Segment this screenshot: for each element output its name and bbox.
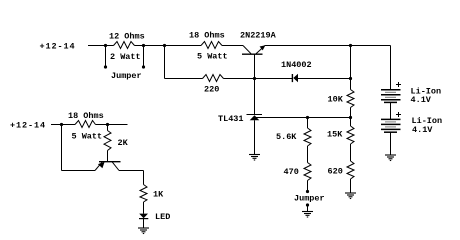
svg-text:+12-14: +12-14 xyxy=(10,121,46,131)
svg-text:15K: 15K xyxy=(327,130,343,140)
resistor R8 5.6K zigzag xyxy=(304,128,311,146)
wire 10K column top xyxy=(350,46,352,90)
wire 2K top lead xyxy=(107,125,109,131)
svg-text:470: 470 xyxy=(284,167,299,177)
wire diode to 10K column xyxy=(298,78,351,80)
transistor Q2 emitter diagonal xyxy=(95,162,102,170)
resistor R2 18 Ohms zigzag xyxy=(201,42,222,49)
resistor R5 10K zigzag xyxy=(347,90,354,108)
wire Q2 collector row xyxy=(119,170,144,172)
transistor Q2 emitter arrowhead xyxy=(98,162,105,168)
svg-text:18 Ohms: 18 Ohms xyxy=(189,31,225,41)
battery BT1 plate long 3 xyxy=(381,99,401,101)
wire 470 to jumper post xyxy=(307,181,309,192)
junction dot top rail x164 xyxy=(163,44,166,47)
resistor R11 1K zigzag xyxy=(140,185,147,203)
battery BT1 short plate 2 xyxy=(385,96,396,98)
jumper post end dot left xyxy=(104,65,107,68)
svg-text:4.1V: 4.1V xyxy=(412,125,433,135)
battery BT2 short plate 1 xyxy=(385,121,396,123)
wire battery lead top xyxy=(390,46,392,90)
svg-text:Jumper: Jumper xyxy=(294,194,325,204)
LED cathode bar xyxy=(139,218,148,220)
junction dot top rail x350 xyxy=(349,44,352,47)
svg-text:2 Watt: 2 Watt xyxy=(110,52,141,62)
svg-text:Jumper: Jumper xyxy=(111,71,142,81)
ground under jumper2 xyxy=(302,211,313,213)
svg-text:2K: 2K xyxy=(118,138,129,148)
wire bottom rail to stub end xyxy=(96,124,128,126)
jumper2 post dot top xyxy=(306,190,309,193)
junction dot bottom rail x107 xyxy=(106,123,109,126)
wire top rail mid xyxy=(135,45,202,47)
wire collector down to 1K xyxy=(143,171,145,185)
wire 220 row left xyxy=(165,78,203,80)
TL431 U1 triangle xyxy=(250,115,260,120)
junction dot bottom rail x61 xyxy=(60,123,63,126)
resistor R4 18 Ohms bottom zigzag xyxy=(75,121,96,128)
jumper post stub left xyxy=(105,46,107,68)
wire 620 to ground xyxy=(350,179,352,193)
transistor Q1 emitter arrowhead xyxy=(260,45,266,50)
battery BT2 short plate 2 xyxy=(385,126,396,128)
jumper post stub right xyxy=(143,46,145,68)
resistor R3 220 zigzag xyxy=(203,75,224,82)
junction dot ref row x350 xyxy=(349,116,352,119)
wire to transistor collector xyxy=(222,45,243,47)
resistor R9 470 zigzag xyxy=(304,163,311,181)
wire battery bottom lead xyxy=(390,132,392,155)
battery BT1 plate bottom xyxy=(384,101,397,103)
wire Q2 emitter branch vertical xyxy=(61,125,63,171)
battery BT2 plate long 3 xyxy=(381,128,401,130)
svg-text:10K: 10K xyxy=(328,95,344,105)
battery BT1 plate long 1 xyxy=(381,89,401,91)
ground under battery xyxy=(385,154,396,156)
battery BT1 plate long 2 xyxy=(381,94,401,96)
svg-text:620: 620 xyxy=(328,167,343,177)
transistor Q2 base bar xyxy=(99,161,121,163)
wire 15K to 620 xyxy=(350,144,352,161)
svg-text:4.1V: 4.1V xyxy=(411,95,432,105)
wire Q2 emitter row xyxy=(62,170,96,172)
wire emitter to battery top rail xyxy=(265,45,391,47)
svg-text:5 Watt: 5 Watt xyxy=(197,52,228,62)
svg-text:+12-14: +12-14 xyxy=(40,41,76,51)
node +12-14 top rail wire xyxy=(88,45,114,47)
resistor R6 15K zigzag xyxy=(347,126,354,144)
wire 220 row left vertical xyxy=(164,46,166,79)
svg-text:1K: 1K xyxy=(153,190,164,200)
battery BT1 short plate 1 xyxy=(385,91,396,93)
transistor Q2 collector diagonal xyxy=(112,162,119,171)
resistor R7 620 zigzag xyxy=(347,161,354,179)
wire battery middle lead xyxy=(390,103,392,120)
junction dot top rail x143.5 xyxy=(142,44,145,47)
svg-text:5.6K: 5.6K xyxy=(276,132,297,142)
wire TL431 cathode vertical xyxy=(254,79,256,115)
svg-text:12 Ohms: 12 Ohms xyxy=(109,31,145,41)
battery BT2 plate long 1 xyxy=(381,118,401,120)
wire Q1 base down xyxy=(254,54,256,78)
ground under 620 xyxy=(345,192,356,194)
battery BT2 plate bottom xyxy=(384,131,397,133)
jumper post end dot right xyxy=(142,65,145,68)
resistor R10 2K zigzag xyxy=(104,131,111,151)
resistor R1 12 Ohms zigzag xyxy=(114,42,135,49)
wire 1K to LED xyxy=(143,202,145,214)
svg-text:LED: LED xyxy=(155,212,170,222)
ground under TL431 xyxy=(249,154,260,156)
svg-text:220: 220 xyxy=(204,85,219,95)
junction dot top rail x105 xyxy=(104,44,107,47)
svg-text:2N2219A: 2N2219A xyxy=(240,30,277,40)
svg-text:1N4002: 1N4002 xyxy=(281,60,312,70)
wire TL431 reference row xyxy=(256,117,350,119)
diode D1 cathode bar xyxy=(291,74,293,82)
wire 5.6K top lead xyxy=(307,118,309,129)
node +12-14 bottom wire xyxy=(51,124,75,126)
jumper2 post dot bottom xyxy=(306,203,309,206)
junction dot ref row x307 xyxy=(306,116,309,119)
battery BT1 plus sign xyxy=(396,82,401,87)
LED D2 triangle xyxy=(139,214,148,219)
transistor Q1 emitter diagonal xyxy=(256,46,265,54)
svg-text:18 Ohms: 18 Ohms xyxy=(68,111,104,121)
battery BT2 plus sign xyxy=(396,112,401,117)
battery BT2 plate long 2 xyxy=(381,123,401,125)
wire 10K to 15K xyxy=(350,108,352,127)
transistor Q1 collector diagonal xyxy=(243,46,251,54)
ground under LED xyxy=(138,227,149,229)
wire 5.6K to 470 xyxy=(307,146,309,163)
junction dot base/diode row xyxy=(253,77,256,80)
diode D1 1N4002 triangle xyxy=(293,74,298,83)
transistor Q2 base lead up xyxy=(107,151,109,162)
wire 220 to diode xyxy=(224,78,293,80)
wire jumper post to ground xyxy=(307,205,309,212)
svg-text:5 Watt: 5 Watt xyxy=(72,132,103,142)
TL431 U1 cathode bar xyxy=(247,114,263,116)
svg-text:TL431: TL431 xyxy=(218,114,244,124)
wire LED to ground xyxy=(143,219,145,228)
wire TL431 anode to ground xyxy=(254,120,256,154)
transistor Q1 base bar xyxy=(242,53,263,55)
junction dot diode row x350 xyxy=(349,77,352,80)
